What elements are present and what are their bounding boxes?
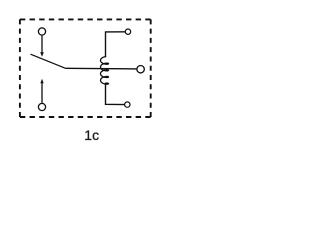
relay outline (dashed enclosure) xyxy=(20,19,151,117)
terminal circle right (common) xyxy=(137,66,144,73)
wire arrow stem from NO terminal xyxy=(41,83,43,103)
wire top border xyxy=(20,18,151,20)
wire left border xyxy=(19,19,21,117)
wire arrow stem from COM terminal xyxy=(41,36,43,53)
terminal circle COM top-left xyxy=(38,28,45,35)
wire coil top lead xyxy=(106,32,129,58)
wire bottom border xyxy=(20,116,151,118)
movable contact arm (diagonal) xyxy=(31,54,66,68)
wire right border xyxy=(150,19,152,117)
svg-text:1c: 1c xyxy=(84,127,99,143)
arrowhead down xyxy=(40,52,44,57)
terminal circle NO bottom-left xyxy=(38,103,45,110)
wire arm to right terminal xyxy=(66,67,137,70)
terminal circle coil bottom-right xyxy=(125,102,130,107)
arrowhead up xyxy=(40,79,43,84)
coil L1 xyxy=(101,56,109,85)
terminal circle coil top-right xyxy=(125,29,130,34)
wire coil bottom lead xyxy=(106,84,125,105)
